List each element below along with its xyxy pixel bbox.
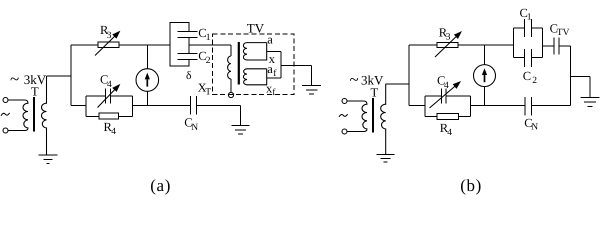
transformer T core (a) (33, 97, 35, 132)
TV upper secondary winding a-x (a) (243, 43, 266, 60)
wire block left side (b) (424, 96, 426, 116)
svg-text:T: T (371, 85, 379, 99)
svg-text:4: 4 (107, 80, 112, 90)
wire lower secondary tap (a) (267, 77, 282, 79)
source terminal bottom (b) (342, 129, 347, 134)
TV dashed enclosure (a) (213, 34, 295, 94)
wire left vertical (a) (70, 45, 72, 106)
svg-text:f: f (272, 88, 276, 98)
arrow of variable capacitor C4 (a) (98, 85, 120, 108)
svg-text:3: 3 (446, 33, 451, 43)
source terminal bottom (a) (3, 128, 8, 133)
wire right vertical (b) (570, 46, 572, 106)
arrow of variable resistor R3 (b) (435, 32, 461, 57)
wire block bottom branch (b) (425, 115, 470, 117)
wire galvanometer top stem (a) (146, 45, 148, 69)
ground bottom right (a) (232, 126, 250, 134)
svg-text:1: 1 (527, 13, 532, 23)
galvanometer G circle (b) (474, 65, 496, 87)
wire block left lead (a) (71, 105, 86, 107)
transformer T core (b) (372, 98, 374, 133)
wire upper secondary tap (a) (267, 51, 282, 53)
wire block right side (b) (469, 96, 471, 116)
svg-text:T: T (31, 85, 39, 99)
capacitor C1 plates (a) (178, 31, 198, 37)
wire to CTV (b) (543, 45, 555, 47)
svg-text:2: 2 (206, 56, 211, 66)
capacitor C2 plates (b) (525, 49, 532, 67)
wire bottom rail right of CN (b) (531, 105, 570, 107)
wire C2 branch (b) (514, 56, 543, 58)
TV core lines (a) (238, 42, 240, 85)
AC tilde symbol (b) (339, 114, 348, 117)
transformer T secondary winding (a) (41, 76, 46, 155)
terminal XT circle (a) (228, 92, 233, 97)
ground under transformer T (a) (39, 155, 58, 164)
wire galvanometer bottom stem (b) (484, 87, 486, 106)
wire galvanometer bottom stem (a) (146, 91, 148, 105)
galvanometer arrow (b) (482, 68, 487, 75)
svg-text:δ: δ (186, 70, 191, 82)
wire secondary to left node (a) (47, 75, 72, 77)
arrow of variable resistor R3 (a) (95, 32, 119, 56)
svg-text:4: 4 (447, 128, 452, 138)
svg-text:(b): (b) (460, 176, 482, 195)
wire bottom rail (b) (470, 105, 525, 107)
wire block left side (a) (85, 96, 87, 117)
resistor R3 (a) (98, 42, 119, 48)
wire top rail right (b) (458, 44, 514, 46)
wire secondary to left node (b) (386, 83, 409, 85)
transformer T primary winding (b) (347, 101, 367, 132)
wire block left lead (b) (409, 105, 425, 107)
standard capacitor shield bracket (a) (170, 23, 189, 67)
svg-text:TV: TV (247, 21, 265, 36)
AC tilde symbol (a) (1, 113, 10, 116)
svg-text:T: T (205, 87, 211, 97)
wire block C1C2 left side (b) (513, 28, 515, 57)
svg-text:1: 1 (206, 33, 211, 43)
wire secondary bus (a) (280, 52, 282, 79)
wire top rail right (a) (119, 44, 170, 46)
transformer T primary winding (a) (8, 100, 28, 131)
wire CTV to right vertical (b) (559, 45, 570, 47)
wire left vertical (b) (408, 45, 410, 106)
wire block C1C2 right side (b) (542, 28, 544, 57)
svg-text:C: C (523, 69, 531, 83)
wire block top branch (b) (425, 95, 470, 97)
wire tap to TV primary (a) (189, 45, 231, 56)
svg-text:N: N (191, 123, 198, 133)
svg-text:2: 2 (532, 76, 537, 86)
wire bottom rail (a) (133, 105, 191, 107)
TV primary winding (a) (228, 56, 231, 79)
wire top rail left (a) (71, 44, 98, 46)
wire bottom rail right of CN (a) (197, 106, 241, 126)
wire C1 branch (b) (514, 27, 543, 29)
wire to TV ground (a) (281, 65, 312, 85)
svg-text:N: N (531, 123, 538, 133)
ground right (b) (581, 97, 600, 106)
capacitor CN plates (a) (190, 96, 196, 114)
resistor R3 (b) (437, 43, 458, 48)
wire to ground (b) (571, 76, 590, 97)
svg-text:4: 4 (444, 81, 449, 91)
capacitor C4 plates (b) (442, 89, 447, 104)
svg-text:(a): (a) (150, 176, 171, 195)
TV lower secondary winding af-xf (a) (243, 69, 266, 85)
ground under transformer T (b) (377, 155, 395, 163)
wire block bottom branch (a) (86, 116, 133, 118)
svg-text:~: ~ (350, 70, 359, 89)
arrow of variable capacitor C4 (b) (430, 82, 460, 108)
capacitor CTV plates (b) (554, 38, 559, 55)
svg-text:~: ~ (10, 70, 19, 89)
galvanometer arrow (a) (145, 73, 150, 80)
svg-text:3: 3 (107, 31, 112, 41)
ground right of TV (a) (302, 85, 321, 94)
capacitor C4 plates (a) (105, 89, 110, 104)
capacitor C1 plates (b) (525, 19, 532, 37)
source terminal top (a) (3, 98, 8, 103)
wire block right side (a) (132, 96, 134, 117)
svg-text:TV: TV (557, 28, 570, 38)
wire top rail left (b) (409, 44, 437, 46)
source terminal top (b) (342, 99, 347, 104)
wire C1-C2 middle stem (a) (188, 37, 190, 53)
wire TV primary bottom lead (a) (230, 79, 232, 92)
svg-text:4: 4 (111, 127, 116, 137)
wire galvanometer top stem (b) (484, 45, 486, 65)
wire block top branch (a) (86, 95, 133, 97)
resistor R4 (b) (437, 113, 459, 119)
galvanometer G circle (a) (136, 69, 159, 92)
capacitor C2 plates (a) (178, 53, 198, 59)
transformer T secondary winding (b) (381, 84, 386, 155)
resistor R4 (a) (99, 113, 119, 119)
capacitor CN plates (b) (525, 97, 532, 115)
